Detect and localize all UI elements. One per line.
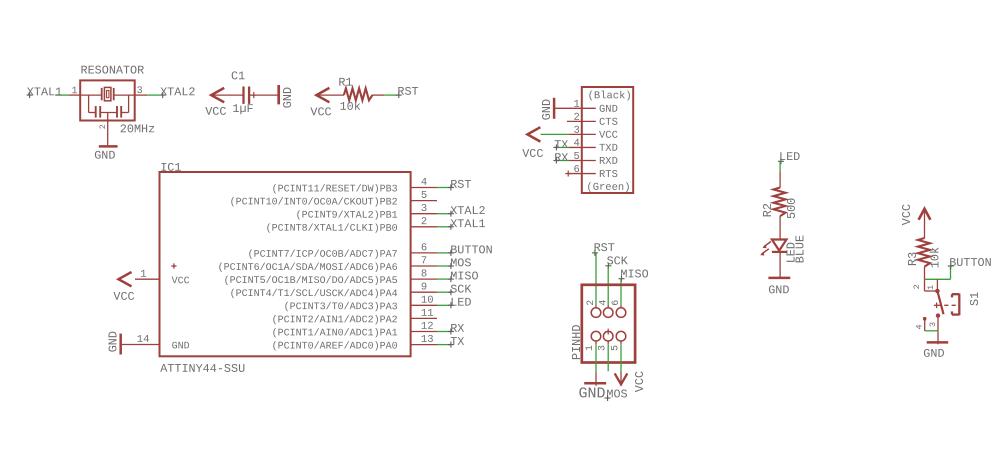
- IC pin 5 label: [230, 196, 398, 208]
- svg-text:BUTTON: BUTTON: [949, 256, 991, 270]
- switch S1 cross mark: [934, 303, 942, 309]
- svg-text:RST: RST: [397, 85, 418, 99]
- svg-text:12: 12: [421, 321, 434, 333]
- node SCK label (IC pin 9): [448, 283, 472, 297]
- node MOS label (ISP): [605, 387, 628, 401]
- svg-text:4: 4: [914, 324, 924, 329]
- node RX label (IC pin 12): [448, 322, 464, 336]
- svg-text:7: 7: [421, 255, 427, 267]
- IC pin 10 label: [284, 301, 398, 313]
- svg-text:TX: TX: [450, 335, 464, 349]
- svg-text:BLUE: BLUE: [793, 235, 807, 263]
- svg-text:TX: TX: [554, 138, 568, 152]
- node SCK label (ISP): [605, 254, 628, 269]
- node LED label: [778, 150, 800, 164]
- wire VCC to R3: [924, 210, 926, 239]
- node RST label (IC pin 4): [448, 178, 472, 192]
- wire XTAL2 net stub (right of resonator): [147, 94, 160, 96]
- svg-text:BUTTON: BUTTON: [450, 243, 492, 257]
- IC pin 12 number: [421, 321, 434, 333]
- svg-text:GND: GND: [172, 341, 190, 352]
- svg-text:XTAL1: XTAL1: [27, 85, 62, 99]
- svg-text:1: 1: [926, 285, 936, 290]
- svg-text:10: 10: [421, 295, 434, 307]
- switch S1 actuator: [952, 294, 959, 316]
- switch S1 name: [968, 292, 982, 306]
- svg-text:11: 11: [421, 308, 434, 320]
- svg-text:GND: GND: [768, 283, 789, 297]
- resistor R3: [918, 238, 930, 267]
- svg-text:GND: GND: [578, 385, 605, 402]
- wire R1 to RST: [373, 94, 385, 96]
- svg-text:VCC: VCC: [310, 105, 331, 119]
- wire TX net (J1 pin 4): [555, 146, 596, 148]
- svg-text:GND: GND: [94, 149, 115, 163]
- svg-text:(PCINT7/ICP/OC0B/ADC7)PA7: (PCINT7/ICP/OC0B/ADC7)PA7: [248, 249, 398, 261]
- connector JP1 pin 6 number: [611, 300, 622, 306]
- LED LED1 emission arrows: [760, 242, 771, 256]
- wire RST net (IC pin 4): [437, 187, 451, 189]
- svg-text:1: 1: [140, 269, 146, 281]
- resonator Q1 name label: [80, 64, 144, 78]
- connector J1 pin 3 number: [573, 125, 579, 137]
- switch S1 dashed actuator link: [944, 304, 956, 306]
- svg-text:VCC: VCC: [599, 130, 618, 142]
- IC pin 9 label: [230, 288, 398, 300]
- svg-text:1: 1: [585, 345, 596, 351]
- IC pin 1 wire: [135, 278, 160, 280]
- ground GND (J1 pin 1): [540, 98, 554, 120]
- node RST label (ISP): [592, 241, 615, 256]
- ground GND (C1): [279, 85, 295, 108]
- svg-text:S1: S1: [968, 292, 982, 306]
- svg-text:VCC: VCC: [113, 290, 134, 304]
- wire R3 to junction: [924, 267, 926, 280]
- svg-text:(PCINT2/AIN1/ADC2)PA2: (PCINT2/AIN1/ADC2)PA2: [272, 314, 398, 326]
- connector JP1 pin 5 number: [610, 345, 621, 351]
- wire VCC to C1: [211, 94, 242, 96]
- power VCC (ISP pin 5): [615, 371, 647, 392]
- IC pin 11 label: [272, 314, 398, 326]
- svg-text:(Black): (Black): [588, 90, 632, 102]
- IC pin 3 number: [421, 203, 427, 215]
- wire S1 to GND: [937, 331, 939, 345]
- svg-text:VCC: VCC: [205, 105, 226, 119]
- connector J1 pin 6 wire: [565, 171, 596, 177]
- switch S1 pin 2 number: [912, 284, 922, 289]
- svg-text:3: 3: [928, 322, 938, 327]
- svg-text:TXD: TXD: [599, 143, 618, 155]
- IC pin 6 label: [248, 249, 398, 261]
- ground GND (resonator): [94, 146, 117, 162]
- LED LED1 value BLUE: [793, 235, 807, 263]
- IC pin 9 number: [421, 282, 427, 294]
- IC pin 4 wire: [411, 187, 437, 189]
- IC pin 4 number: [421, 177, 427, 189]
- svg-text:20MHz: 20MHz: [120, 122, 155, 136]
- svg-text:1: 1: [71, 86, 77, 97]
- resonator pin 1 stub: [68, 94, 80, 96]
- IC pin 5 wire: [411, 200, 437, 202]
- IC pin 10 number: [421, 295, 434, 307]
- svg-text:GND: GND: [281, 87, 295, 108]
- connector J1 pin 1 label: [599, 104, 618, 116]
- connector J1 pin 5 label: [599, 156, 618, 168]
- switch S1 pin 4 stub: [924, 319, 926, 331]
- node RX label: [553, 151, 568, 165]
- svg-text:LED: LED: [450, 296, 471, 310]
- IC pin 12 label: [272, 327, 398, 339]
- svg-text:1µF: 1µF: [232, 102, 253, 116]
- IC pin 13 number: [421, 334, 434, 346]
- IC pin 10 wire: [411, 304, 437, 306]
- connector JP1 pin 1 number: [585, 345, 596, 351]
- connector JP1 pin 4 number: [598, 300, 609, 306]
- wire RX net (IC pin 12): [437, 331, 451, 333]
- svg-text:3: 3: [598, 345, 609, 351]
- svg-text:RX: RX: [554, 151, 568, 165]
- switch S1 pin 3 number: [928, 322, 938, 327]
- ground GND (ISP): [578, 372, 606, 402]
- connector J1 FTDI body: [582, 87, 633, 193]
- IC pin 11 number: [421, 308, 434, 320]
- IC pin 13 wire: [411, 344, 437, 346]
- connector JP1 pin 4 pad: [603, 308, 613, 318]
- wire S1 pins 3-4 link: [925, 330, 938, 332]
- node MISO label (IC pin 8): [448, 269, 479, 283]
- svg-text:R3: R3: [906, 252, 920, 266]
- svg-text:GND: GND: [923, 347, 944, 361]
- wire BUTTON net horizontal: [925, 278, 951, 280]
- svg-text:2: 2: [421, 216, 427, 228]
- node MISO label (ISP): [619, 267, 649, 281]
- IC pin 7 label: [218, 262, 398, 274]
- wire RST net: [384, 94, 398, 96]
- resonator pin 2 wire: [107, 113, 109, 146]
- switch S1 pin 1 stub: [936, 279, 938, 291]
- IC pin 3 wire: [411, 213, 437, 215]
- wire LED net (IC pin 10): [437, 304, 451, 306]
- IC pin 8 label: [224, 275, 398, 287]
- svg-text:(PCINT4/T1/SCL/USCK/ADC4)PA4: (PCINT4/T1/SCL/USCK/ADC4)PA4: [230, 288, 398, 300]
- svg-text:RXD: RXD: [599, 156, 618, 168]
- resistor R1 value: [340, 100, 361, 114]
- svg-text:PINHD: PINHD: [570, 325, 584, 360]
- connector J1 pin 3 label: [599, 130, 618, 142]
- svg-text:2: 2: [912, 284, 922, 289]
- resonator pin 3 number: [137, 86, 143, 97]
- wire SCK net (ISP pin 4): [607, 266, 609, 308]
- resonator pin 2 number: [98, 124, 108, 129]
- connector JP1 pin 3 pad: [603, 331, 613, 341]
- svg-text:GND: GND: [540, 99, 554, 120]
- connector J1 pin 4 number: [573, 138, 579, 150]
- node BUTTON label (IC pin 6): [448, 243, 493, 257]
- connector JP1 pin 1 pad: [591, 331, 601, 341]
- svg-text:(PCINT0/AREF/ADC0)PA0: (PCINT0/AREF/ADC0)PA0: [272, 340, 398, 352]
- svg-text:2: 2: [98, 124, 108, 129]
- node LED label (IC pin 10): [448, 296, 472, 310]
- ground GND (S1): [923, 342, 948, 360]
- resonator Q1 body: [80, 80, 135, 120]
- wire GND net (ISP pin 1): [595, 341, 597, 372]
- node XTAL2 label: [160, 85, 196, 99]
- svg-text:CTS: CTS: [599, 117, 618, 129]
- svg-text:10k: 10k: [340, 100, 361, 114]
- svg-text:6: 6: [611, 300, 622, 306]
- wire VCC to J1 pin 3: [541, 133, 596, 135]
- svg-text:ATTINY44-SSU: ATTINY44-SSU: [160, 362, 245, 376]
- wire VCC net (ISP pin 5): [620, 341, 622, 372]
- connector JP1 pin 3 number: [598, 345, 609, 351]
- svg-text:SCK: SCK: [450, 283, 472, 297]
- svg-text:RST: RST: [450, 178, 471, 192]
- node BUTTON label: [948, 256, 992, 270]
- svg-text:3: 3: [421, 203, 427, 215]
- IC pin 1 label VCC: [171, 263, 189, 287]
- IC pin 7 wire: [411, 265, 437, 267]
- svg-text:XTAL2: XTAL2: [450, 204, 485, 218]
- connector J1 label (Black): [588, 90, 632, 102]
- resistor R3 name: [906, 252, 920, 266]
- junction (S1 pin 1): [935, 289, 940, 294]
- wire RX net (J1 pin 5): [555, 160, 596, 162]
- svg-text:10k: 10k: [928, 247, 942, 268]
- svg-text:5: 5: [610, 345, 621, 351]
- connector J1 pin 2 label: [599, 117, 618, 129]
- IC pin 6 wire: [411, 252, 437, 254]
- resistor R2: [774, 188, 786, 217]
- IC IC1 name: [160, 161, 181, 175]
- svg-text:RX: RX: [450, 322, 464, 336]
- wire XTAL1 net stub (left of resonator): [55, 94, 68, 96]
- wire XTAL1 net (IC pin 2): [437, 226, 451, 228]
- connector JP1 PINHD body: [582, 285, 635, 363]
- connector J1 pin 1 number: [573, 99, 579, 111]
- wire BUTTON net vertical: [950, 266, 952, 279]
- switch S1 pin 3 stub: [937, 316, 939, 331]
- node XTAL2 label (IC pin 3): [448, 204, 486, 218]
- wire TX net (IC pin 13): [437, 344, 451, 346]
- IC pin 14 number: [137, 334, 150, 346]
- connector J1 label (Green): [586, 182, 630, 194]
- node TX label (IC pin 13): [448, 335, 464, 349]
- wire VCC to R1: [316, 94, 344, 96]
- resonator pin 3 stub: [135, 94, 148, 96]
- connector J1 pin 2 wire: [567, 120, 596, 122]
- node RST label (R1): [396, 85, 419, 99]
- power VCC (R3): [900, 204, 931, 225]
- svg-text:MISO: MISO: [620, 267, 648, 281]
- svg-text:XTAL1: XTAL1: [450, 217, 485, 231]
- switch S1 lever: [937, 291, 943, 314]
- svg-text:XTAL2: XTAL2: [160, 85, 195, 99]
- svg-text:(PCINT6/OC1A/SDA/MOSI/ADC6)PA6: (PCINT6/OC1A/SDA/MOSI/ADC6)PA6: [218, 262, 398, 274]
- IC IC1 part value: [160, 362, 245, 376]
- resistor R1: [344, 88, 373, 100]
- svg-text:VCC: VCC: [522, 147, 543, 161]
- IC pin 1 number: [140, 269, 146, 281]
- LED LED1 diode: [772, 240, 787, 252]
- IC pin 7 number: [421, 255, 427, 267]
- node MOS label (IC pin 7): [448, 256, 472, 270]
- svg-text:VCC: VCC: [900, 204, 914, 225]
- svg-text:9: 9: [421, 282, 427, 294]
- svg-text:2: 2: [586, 300, 597, 306]
- wire XTAL2 net (IC pin 3): [437, 213, 451, 215]
- svg-text:(PCINT10/INT0/OC0A/CKOUT)PB2: (PCINT10/INT0/OC0A/CKOUT)PB2: [230, 196, 398, 208]
- wire C1 to GND: [250, 94, 278, 96]
- svg-text:4: 4: [421, 177, 427, 189]
- IC pin 8 number: [421, 268, 427, 280]
- svg-text:500: 500: [785, 198, 799, 219]
- svg-text:3: 3: [137, 86, 143, 97]
- connector J1 pin 6 number: [573, 164, 579, 176]
- resistor R1 name: [338, 76, 352, 90]
- IC pin 3 label: [296, 210, 398, 222]
- svg-text:(PCINT11/RESET/DW)PB3: (PCINT11/RESET/DW)PB3: [272, 183, 398, 195]
- svg-text:(PCINT8/XTAL1/CLKI)PB0: (PCINT8/XTAL1/CLKI)PB0: [266, 223, 398, 235]
- IC pin 11 wire: [411, 317, 437, 319]
- IC pin 13 label: [272, 340, 398, 352]
- IC pin 5 number: [421, 190, 427, 202]
- svg-text:5: 5: [421, 190, 427, 202]
- wire RST net (ISP pin 2): [595, 253, 597, 308]
- IC pin 9 wire: [411, 291, 437, 293]
- svg-text:R2: R2: [761, 203, 775, 217]
- svg-text:C1: C1: [231, 69, 245, 83]
- IC pin 14 wire: [121, 344, 160, 346]
- ground GND (IC pin 14): [107, 331, 121, 354]
- IC pin 2 number: [421, 216, 427, 228]
- IC IC1 body ATTINY44-SSU: [160, 172, 411, 356]
- switch S1 pin 2 stub: [924, 279, 926, 291]
- power VCC (C1): [205, 88, 226, 119]
- svg-text:8: 8: [421, 268, 427, 280]
- connector JP1 pin 2 number: [586, 300, 597, 306]
- wire MOS net (ISP pin 3): [607, 341, 609, 371]
- ground GND (LED): [768, 278, 790, 297]
- wire LED1 to GND: [779, 252, 781, 278]
- svg-text:6: 6: [421, 242, 427, 254]
- connector JP1 pin 5 pad: [616, 331, 626, 341]
- switch S1 pin 1 number: [926, 285, 936, 290]
- svg-text:13: 13: [421, 334, 434, 346]
- wire BUTTON net (IC pin 6): [437, 252, 451, 254]
- IC pin 2 label: [266, 223, 398, 235]
- connector J1 pin 4 label: [599, 143, 618, 155]
- svg-text:VCC: VCC: [633, 371, 647, 392]
- svg-text:(Green): (Green): [586, 182, 630, 194]
- svg-text:4: 4: [598, 300, 609, 306]
- wire LED to R2: [779, 171, 781, 188]
- power VCC (IC pin 1): [113, 272, 134, 304]
- switch S1 pin 4 contact dot: [923, 317, 927, 321]
- IC pin 4 label: [272, 183, 398, 195]
- wire MISO net (IC pin 8): [437, 278, 451, 280]
- connector JP1 name PINHD: [570, 325, 584, 360]
- capacitor C1: [244, 87, 257, 104]
- svg-text:MISO: MISO: [450, 269, 478, 283]
- svg-text:LED: LED: [779, 150, 800, 164]
- svg-text:VCC: VCC: [172, 276, 190, 287]
- svg-text:14: 14: [137, 334, 150, 346]
- power VCC (R1): [310, 88, 331, 119]
- resistor R2 value: [785, 198, 799, 219]
- junction (S1 pin 3 contact): [936, 313, 940, 317]
- svg-text:MOS: MOS: [606, 387, 627, 401]
- svg-text:(PCINT9/XTAL2)PB1: (PCINT9/XTAL2)PB1: [296, 210, 398, 222]
- svg-text:R1: R1: [338, 76, 352, 90]
- svg-text:GND: GND: [599, 104, 618, 116]
- resonator pin 1 number: [71, 86, 77, 97]
- connector J1 pin 6 label: [599, 169, 618, 181]
- power VCC (J1 pin 3): [522, 127, 543, 161]
- capacitor C1 value: [232, 102, 253, 116]
- IC pin 14 label GND: [172, 341, 190, 352]
- wire R2 to LED1: [779, 216, 781, 239]
- IC pin 8 wire: [411, 278, 437, 280]
- connector JP1 pin 2 pad: [591, 308, 601, 318]
- wire LED net: [779, 161, 781, 171]
- junction cross (JP1 pin 3): [605, 329, 611, 335]
- svg-text:MOS: MOS: [450, 256, 471, 270]
- connector JP1 pin 6 pad: [616, 308, 626, 318]
- connector J1 pin 1 wire: [554, 107, 596, 109]
- IC pin 2 wire: [411, 226, 437, 228]
- resistor R2 name: [761, 203, 775, 217]
- LED LED1 name: [784, 242, 798, 263]
- resistor R3 value: [928, 247, 942, 268]
- wire MISO net (ISP pin 6): [620, 279, 622, 308]
- IC pin 12 wire: [411, 331, 437, 333]
- svg-text:RESONATOR: RESONATOR: [80, 64, 144, 78]
- node XTAL1 label (IC pin 2): [448, 217, 486, 231]
- capacitor C1 name: [231, 69, 245, 83]
- node TX label: [553, 138, 568, 152]
- connector J1 pin 5 number: [573, 151, 579, 163]
- wire MOS net (IC pin 7): [437, 265, 451, 267]
- resonator value 20MHz: [120, 122, 155, 136]
- svg-text:(PCINT5/OC1B/MISO/DO/ADC5)PA5: (PCINT5/OC1B/MISO/DO/ADC5)PA5: [224, 275, 398, 287]
- svg-text:GND: GND: [107, 331, 121, 352]
- node XTAL1 label: [27, 85, 63, 99]
- svg-text:(PCINT1/AIN0/ADC1)PA1: (PCINT1/AIN0/ADC1)PA1: [272, 327, 398, 339]
- switch S1 pin 4 number: [914, 324, 924, 329]
- switch S1 pins 1-2 link: [925, 290, 938, 292]
- wire SCK net (IC pin 9): [437, 291, 451, 293]
- svg-text:(PCINT3/T0/ADC3)PA3: (PCINT3/T0/ADC3)PA3: [284, 301, 398, 313]
- IC pin 6 number: [421, 242, 427, 254]
- connector J1 pin 2 number: [573, 112, 579, 124]
- svg-text:RTS: RTS: [599, 169, 618, 181]
